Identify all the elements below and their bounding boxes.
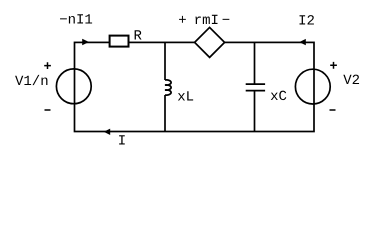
wire outer loop xyxy=(75,42,315,131)
minus sign V1 xyxy=(45,109,51,111)
wire through V2 xyxy=(313,69,315,104)
wire capacitor branch lower xyxy=(254,91,256,132)
svg-text:V1/n: V1/n xyxy=(15,74,49,90)
svg-text:−: − xyxy=(222,13,230,29)
voltage source V2 circle xyxy=(295,69,330,104)
wire through V1/n xyxy=(74,69,76,104)
svg-text:rmI: rmI xyxy=(194,13,219,29)
minus sign V2 xyxy=(330,109,336,111)
svg-text:+: + xyxy=(178,13,186,29)
dependent source diamond xyxy=(195,27,225,57)
svg-text:xC: xC xyxy=(270,89,287,105)
plus sign V1 xyxy=(44,62,51,69)
arrow right on top-left wire xyxy=(82,39,89,45)
wire capacitor branch upper xyxy=(254,42,256,84)
svg-text:I: I xyxy=(118,134,126,150)
svg-text:I2: I2 xyxy=(298,14,315,30)
arrow left on top-right wire xyxy=(299,39,306,45)
wire inductor branch upper xyxy=(164,42,166,80)
capacitor xC plates xyxy=(246,83,265,85)
arrow left on bottom wire xyxy=(104,129,111,135)
svg-text:V2: V2 xyxy=(343,73,360,89)
voltage source V1/n circle xyxy=(56,69,91,104)
plus sign V2 xyxy=(330,62,337,69)
svg-text:xL: xL xyxy=(177,90,194,106)
resistor R box xyxy=(110,36,129,47)
wire inductor branch lower xyxy=(164,95,166,132)
svg-text:R: R xyxy=(133,29,142,45)
inductor xL coil xyxy=(165,80,171,95)
svg-text:−nI1: −nI1 xyxy=(59,13,93,29)
